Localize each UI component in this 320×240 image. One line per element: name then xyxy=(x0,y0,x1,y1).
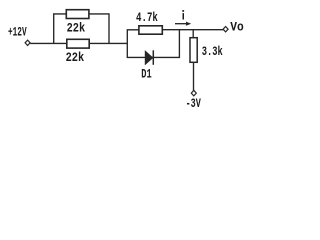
node -3V terminal xyxy=(191,90,196,96)
wire R4 to -3V xyxy=(193,62,195,90)
diode D1 xyxy=(145,51,152,64)
node +12V terminal xyxy=(25,40,30,45)
wire R1 right and down xyxy=(89,14,109,44)
wire R2 to stage2 xyxy=(89,42,127,44)
resistor R2 22k lower xyxy=(67,39,89,48)
label i xyxy=(182,10,184,19)
svg-text:3.3k: 3.3k xyxy=(202,45,223,59)
svg-text:-3V: -3V xyxy=(186,97,202,111)
wire stage2 loop: left vertical, bottom, right vertical xyxy=(127,30,179,58)
svg-text:22k: 22k xyxy=(66,51,85,65)
svg-text:22k: 22k xyxy=(67,21,86,35)
current arrow i xyxy=(175,23,187,25)
svg-text:4.7k: 4.7k xyxy=(136,11,158,25)
resistor R3 4.7k xyxy=(139,26,162,34)
svg-text:+12V: +12V xyxy=(8,26,27,40)
wire output to Vo xyxy=(162,29,223,31)
resistor R1 22k upper xyxy=(66,10,89,19)
wire down to R4 xyxy=(192,30,194,38)
node Vo terminal xyxy=(223,27,228,32)
svg-text:D1: D1 xyxy=(141,68,151,82)
wire left branch up and to R1 xyxy=(54,14,67,44)
wire +12V to R2 xyxy=(30,42,67,44)
resistor R4 3.3k xyxy=(190,38,197,63)
svg-text:Vo: Vo xyxy=(230,20,244,34)
